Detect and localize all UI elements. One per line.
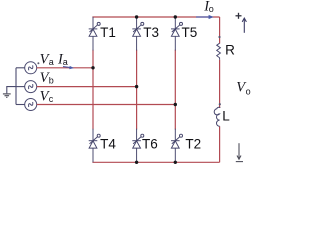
wire column 1 [92,50,94,130]
thyristor T2 [171,129,183,163]
wire source Vc left stub [16,104,25,106]
wire phase c [37,104,176,106]
resistor R [217,43,221,60]
ac source Vb [25,81,37,93]
polarity plus mark [236,13,242,19]
junction top bus / column 2 [135,15,138,18]
svg-text:o: o [246,87,251,97]
wire top bus [92,16,219,18]
ground [3,94,11,98]
svg-text:L: L [222,109,230,124]
svg-text:T5: T5 [182,25,198,40]
node dot near Va [37,62,39,64]
svg-text:T2: T2 [185,136,201,151]
ac source Va [25,62,37,74]
wire between R and L [219,60,221,108]
wire source Va left stub [16,67,25,69]
wire neutral left bus [15,68,17,105]
wire phase a [37,67,93,69]
polarity up arrow [242,18,246,33]
junction phase b / column 2 [135,85,138,88]
reference down arrow [236,143,243,161]
current arrow Io [196,15,214,19]
node dot above R [218,36,220,38]
svg-text:T1: T1 [100,25,116,40]
svg-text:R: R [225,43,235,58]
svg-text:a: a [63,57,68,67]
junction phase c / column 3 [174,103,177,106]
svg-text:T3: T3 [143,25,159,40]
junction top bus / column 3 [174,15,177,18]
junction bottom bus / column 2 [135,161,138,164]
thyristor T3 [132,17,144,51]
thyristor T6 [132,129,144,163]
svg-text:c: c [49,94,54,104]
svg-text:T4: T4 [100,136,116,151]
svg-text:b: b [49,76,54,86]
wire below L to bottom bus [219,126,221,162]
wire phase b [37,86,137,88]
thyristor T5 [171,17,183,51]
thyristor T4 [89,129,101,163]
current arrow Ia [63,66,74,69]
wire source Vb left stub [16,86,25,88]
svg-text:o: o [209,4,214,14]
node dot above L [219,103,221,105]
wire right side down from top bus [219,17,221,44]
svg-text:T6: T6 [142,136,158,151]
thyristor T1 [89,17,101,51]
wire column 3 [174,50,176,130]
svg-text:a: a [49,57,54,67]
inductor L [214,107,220,126]
wire bottom bus [92,161,219,163]
ac source Vc [25,99,37,111]
wire neutral to ground [7,87,16,94]
wire column 2 [136,50,138,130]
junction phase a / column 1 [91,66,94,69]
junction bottom bus / column 3 [174,161,177,164]
